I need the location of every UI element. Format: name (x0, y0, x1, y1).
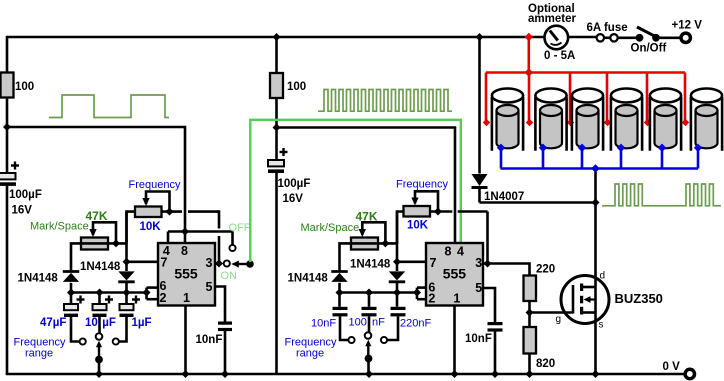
svg-text:4: 4 (457, 245, 464, 259)
svg-text:8: 8 (181, 244, 188, 258)
node junction bus #1 / D2 (123, 289, 131, 297)
wire red feed cell 4 (606, 73, 609, 122)
svg-text:16V: 16V (12, 205, 33, 217)
svg-text:47K: 47K (86, 209, 108, 223)
capacitor C5 1µF (119, 293, 152, 342)
node junction bus #2 / pins 6,2 (413, 289, 421, 297)
wire blue cathode drop cell 3 (581, 147, 584, 169)
wire 10K pot #2 wiper loop (415, 191, 438, 211)
node blue terminal cell 3 (578, 144, 586, 152)
wire discharge line #2 (396, 212, 399, 272)
svg-text:16V: 16V (283, 193, 304, 205)
svg-text:Frequency: Frequency (396, 179, 448, 191)
svg-text:1N4148: 1N4148 (18, 273, 59, 285)
ammeter M1 optional 0-5A (528, 3, 576, 62)
svg-text:Mark/Space: Mark/Space (301, 222, 360, 234)
potentiometer VR3 10K (396, 179, 448, 232)
resistor R2 100 (270, 73, 306, 98)
node junction pin1 #1 / 0V rail (182, 370, 190, 378)
svg-text:Frequency: Frequency (129, 179, 181, 191)
svg-text:µF: µF (102, 317, 116, 329)
capacitor C9 220nF (387, 293, 431, 341)
wire red feed cell 5 (646, 73, 649, 122)
svg-text:10: 10 (85, 317, 98, 329)
wire blue cathode drop cell 2 (542, 147, 545, 169)
wire blue cathode drop cell 4 (620, 147, 623, 169)
svg-text:47µF: 47µF (40, 317, 66, 329)
wire red feed cell 6 (684, 73, 687, 122)
switch SW4 On/Off (631, 27, 667, 54)
wire gate node to MOSFET gate (530, 311, 574, 314)
electrolyser cell 3 (572, 89, 603, 151)
svg-text:1N4148: 1N4148 (350, 258, 391, 270)
wire red anode bus (486, 71, 685, 74)
node junction bus #1 / pins 6,2 (143, 289, 151, 297)
wire red feed cell 2 (528, 73, 531, 122)
svg-text:nF: nF (372, 317, 385, 329)
wire 47K #1 left terminal (71, 243, 108, 271)
svg-text:s: s (599, 320, 604, 331)
node junction top rail / cell supply (red) (525, 33, 534, 42)
svg-text:3: 3 (206, 256, 213, 270)
wire 1N4007 to drain node (480, 201, 596, 204)
wire V+ stub over 555 #1 (pins 4,8) to OFF contact (168, 232, 233, 246)
svg-text:On/Off: On/Off (631, 42, 667, 54)
wire discharge line #1 (125, 212, 128, 271)
electrolyser cell 5 (650, 89, 681, 151)
wire R4 to 0V rail (528, 354, 531, 375)
svg-text:220nF: 220nF (400, 318, 431, 330)
wire gate node to R4 (528, 313, 531, 328)
fuse F1 6A (587, 22, 628, 42)
svg-text:0 - 5A: 0 - 5A (544, 50, 575, 62)
node junction R4 / 0V rail (526, 370, 534, 378)
switch SW3 frequency range selector (285, 332, 388, 374)
capacitor C6 10nF (pin 5 555 #1) (196, 287, 233, 375)
capacitor C4 10µF (85, 293, 116, 334)
waveform slow square wave (555 #1 output) (49, 95, 169, 118)
svg-text:1: 1 (183, 291, 190, 305)
resistor R3 220 (524, 264, 556, 302)
wire +12V top rail (7, 36, 681, 39)
potentiometer VR1 10K (129, 179, 181, 233)
wire blue cathode drop cell 6 (697, 147, 700, 169)
wire 47K pot #1 wiper loop (93, 222, 116, 243)
op-amp/timer U1 555 (158, 243, 215, 306)
diode D2 1N4148 (80, 261, 135, 293)
node junction C6 / 0V rail (221, 370, 229, 378)
wire pin 7 stub 555 #1 (127, 260, 159, 263)
node blue terminal cell 4 (617, 144, 625, 152)
svg-text:1N4148: 1N4148 (80, 261, 121, 273)
diode D1 1N4148 (18, 272, 80, 293)
svg-text:d: d (600, 271, 606, 282)
svg-text:100µF: 100µF (9, 189, 42, 201)
svg-text:10nF: 10nF (311, 318, 336, 330)
svg-text:+12 V: +12 V (672, 20, 703, 32)
potentiometer VR4 47K (301, 210, 379, 250)
node junction red bus / supply (525, 68, 534, 77)
node junction blue bus / drain line (591, 164, 600, 173)
wire drain line (594, 168, 597, 288)
svg-text:Mark/Space: Mark/Space (30, 221, 89, 233)
switch SW2 ON contact + wiper (221, 260, 254, 282)
node junction source / 0V rail (592, 370, 600, 378)
svg-text:1N4148: 1N4148 (288, 273, 329, 285)
transistor Q1 BUZ350 N-channel MOSFET (556, 271, 663, 331)
node red terminal cell 5 (644, 119, 651, 126)
svg-text:555: 555 (174, 266, 198, 282)
svg-text:7: 7 (161, 256, 168, 270)
capacitor C1 100µF 16V (0, 162, 42, 217)
wire left supply rail (R1 branch) (6, 36, 9, 375)
svg-text:5: 5 (475, 281, 482, 295)
electrolyser cell 6 (691, 89, 722, 151)
wire pin 1 555 #2 to 0V (453, 306, 456, 375)
svg-text:10K: 10K (140, 221, 162, 233)
capacitor C8 100nF (349, 293, 386, 333)
diode D3 1N4148 (288, 272, 348, 293)
wire 47K #1 node to discharge line (108, 242, 127, 245)
svg-text:100: 100 (287, 81, 306, 93)
node junction V+ / pin8 555 #1 (181, 228, 189, 236)
node blue terminal cell 6 (694, 144, 702, 152)
svg-text:g: g (556, 314, 562, 325)
svg-text:ON: ON (221, 270, 238, 282)
terminal 0V (663, 361, 695, 379)
wire blue cathode drop cell 5 (661, 147, 664, 169)
wire second supply branch (275, 37, 278, 375)
electrolyser cell 1 (492, 89, 523, 151)
wire 10K #1 to pin3 junction (gaps at crossings) (161, 210, 219, 263)
wire 10K #2 left terminal (397, 212, 404, 244)
node red terminal cell 3 (567, 119, 574, 126)
node red terminal cell 6 (682, 119, 689, 126)
wire pin3 555 #2 to gate resistor (488, 264, 530, 277)
node junction top rail / 1N4007 (476, 33, 484, 41)
svg-text:555: 555 (443, 266, 467, 282)
svg-text:range: range (296, 348, 324, 360)
svg-text:10nF: 10nF (196, 334, 223, 346)
wire pin 7 stub 555 #2 (397, 260, 426, 263)
svg-text:820: 820 (536, 358, 555, 370)
switch SW2 oscillator ON/OFF - OFF contact (229, 222, 251, 251)
svg-text:0 V: 0 V (663, 361, 681, 373)
wire 47K #2 left terminal (340, 243, 379, 271)
node junction top rail / R2 branch (273, 33, 281, 41)
resistor R4 820 (524, 327, 556, 370)
electrolyser cell 2 (535, 89, 566, 151)
svg-text:8: 8 (445, 245, 452, 259)
svg-text:1: 1 (453, 292, 460, 306)
wire 47K #2 node to discharge line (378, 242, 398, 245)
wire source to 0V rail (594, 313, 597, 375)
wire red feed cell 1 (485, 73, 488, 122)
svg-text:3: 3 (475, 256, 482, 270)
node junction SW3 to 0V rail (365, 370, 373, 378)
svg-text:1µF: 1µF (132, 317, 152, 329)
node red terminal cell 1 (483, 119, 490, 126)
wire pin 1 555 #1 to 0V (184, 306, 187, 375)
capacitor C10 10nF (pin 5 555 #2) (465, 288, 503, 375)
diode D4 1N4148 (350, 258, 405, 292)
svg-text:2: 2 (160, 291, 167, 305)
svg-text:range: range (25, 348, 53, 360)
wire blue cathode drop cell 1 (500, 147, 503, 169)
capacitor C3 47µF (40, 293, 85, 342)
node junction pin 3 555 #2 (483, 260, 492, 268)
svg-text:10K: 10K (407, 220, 429, 232)
node red terminal cell 2 (526, 119, 533, 126)
node junction bus #2 / D3 (336, 289, 344, 297)
wire bottom 0V rail (6, 373, 685, 376)
node blue terminal cell 1 (497, 144, 505, 152)
svg-text:OFF: OFF (229, 222, 251, 234)
capacitor C2 100µF 16V (268, 148, 310, 205)
resistor R1 100 (1, 73, 35, 98)
switch SW1 frequency range selector (14, 333, 119, 374)
node junction 10K #2 wiper/track (434, 208, 442, 216)
wire red feed cell 3 (569, 73, 572, 122)
wire V+ feed to 555 #2 (277, 128, 456, 244)
node junction pin7 555 #2 (393, 258, 401, 266)
svg-text:BUZ350: BUZ350 (615, 291, 663, 306)
terminal +12V (672, 20, 703, 43)
node junction 47K #1 wiper/track (112, 239, 120, 247)
wire red supply drop (527, 37, 530, 73)
wire 10K #2 to pin3 junction (gap at V+ crossing) (430, 212, 488, 264)
node blue terminal cell 2 (539, 144, 547, 152)
wire R3 to gate node (528, 301, 531, 313)
capacitor C7 10nF (311, 293, 349, 341)
node junction left rail / V+ feed 555 #1 (3, 123, 11, 131)
svg-text:ammeter: ammeter (528, 13, 576, 25)
wire 10K #1 left terminal (127, 212, 136, 244)
node red terminal cell 4 (604, 119, 611, 126)
node junction pin 3 555 #1 (215, 260, 223, 268)
svg-text:10nF: 10nF (465, 333, 492, 345)
node junction R2 / V+ feed 555 #2 (273, 124, 281, 132)
node junction C10 / 0V rail (491, 370, 499, 378)
potentiometer VR2 47K (30, 209, 108, 250)
waveform gated pulse bursts (MOSFET drive) (602, 184, 721, 206)
node junction 47K #2 wiper/track (381, 239, 389, 247)
node blue terminal cell 5 (658, 144, 666, 152)
wire gating link (green) 555 #1 out to 555 #2 reset (250, 120, 460, 262)
node junction gate divider (526, 309, 534, 317)
svg-text:2: 2 (428, 292, 435, 306)
node junction bus #2 / C8 (365, 289, 373, 297)
op-amp/timer U2 555 (426, 243, 483, 306)
node junction 10K #1 wiper/track (166, 208, 174, 216)
node junction pin1 #2 / 0V rail (451, 370, 459, 378)
wire V+ feed to 555 #1 (7, 127, 185, 232)
svg-text:7: 7 (430, 256, 437, 270)
wire 10K pot #1 wiper loop (146, 192, 170, 212)
wire timing bus 555 #2 (pins 6,2) (340, 288, 427, 300)
node junction bus #1 / C4 (96, 289, 104, 297)
svg-text:100: 100 (349, 317, 367, 329)
wire timing bus 555 #1 (pins 6,2) (71, 288, 158, 300)
node junction drain line (592, 199, 600, 207)
wire blue cathode bus (501, 167, 699, 170)
diode D5 1N4007 (472, 37, 525, 203)
node junction SW1 to 0V rail (95, 370, 103, 378)
electrolyser cell 4 (611, 89, 642, 151)
wire 47K pot #2 wiper loop (362, 222, 385, 243)
svg-text:6A fuse: 6A fuse (587, 22, 628, 34)
waveform fast pulse train (555 #2 output) (318, 90, 452, 112)
svg-text:5: 5 (206, 280, 213, 294)
svg-text:100µF: 100µF (278, 178, 311, 190)
node junction pin7 555 #1 (123, 258, 131, 266)
svg-text:220: 220 (536, 264, 555, 276)
node junction bus #1 / D1 (67, 289, 75, 297)
svg-text:100: 100 (15, 81, 34, 93)
wire OFF contact drop (0, 0, 1, 1)
node junction bus #2 / D4 (393, 289, 401, 297)
